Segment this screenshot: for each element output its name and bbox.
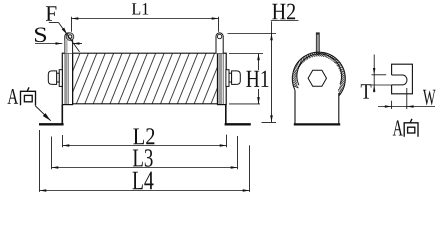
dimension L3 [52, 136, 238, 169]
label L4 [133, 172, 154, 190]
dimension L2 [63, 135, 227, 148]
left mounting tab with hole [65, 33, 74, 53]
label L2 [133, 128, 154, 144]
A-direction arrow (left) [35, 106, 51, 121]
dimension S [35, 43, 82, 45]
right mounting foot [225, 105, 251, 126]
end view: coil hatch band [292, 52, 346, 95]
detail view: lug plate outline [392, 64, 413, 94]
dimension H2 [228, 21, 299, 123]
end view: outer clamp arc [292, 52, 345, 96]
left terminal lug [48, 70, 62, 87]
dimension F (leader) [49, 23, 80, 52]
label A-direction (detail view) [393, 120, 403, 135]
end view: bracket housing [294, 90, 340, 124]
right end cap [218, 53, 227, 104]
end view: hex core [308, 70, 326, 86]
label H2 [272, 4, 295, 20]
end view: lead wire [316, 33, 319, 55]
right terminal lug [226, 70, 240, 87]
label A-direction (left) [8, 89, 19, 104]
dimension T [372, 55, 392, 93]
label S [35, 28, 46, 43]
CJK xiang glyph (left) [21, 87, 36, 105]
end view: inner arc [297, 54, 342, 85]
label W [423, 90, 436, 105]
right mounting tab with hole [216, 33, 223, 53]
dimension L4 [40, 130, 250, 192]
resistor body (hatched cylinder, front view) [73, 53, 218, 104]
label F [46, 6, 57, 20]
dimension L1 [72, 17, 219, 32]
label L3 [133, 149, 153, 166]
CJK xiang glyph (right) [404, 119, 418, 137]
left end cap [62, 53, 72, 104]
dimension W [378, 88, 435, 109]
label L1 [132, 3, 148, 14]
label T [361, 84, 372, 98]
dimension H1 [229, 54, 263, 104]
detail view: U slot [392, 75, 407, 85]
label H1 [246, 71, 268, 87]
left mounting foot [39, 105, 64, 126]
